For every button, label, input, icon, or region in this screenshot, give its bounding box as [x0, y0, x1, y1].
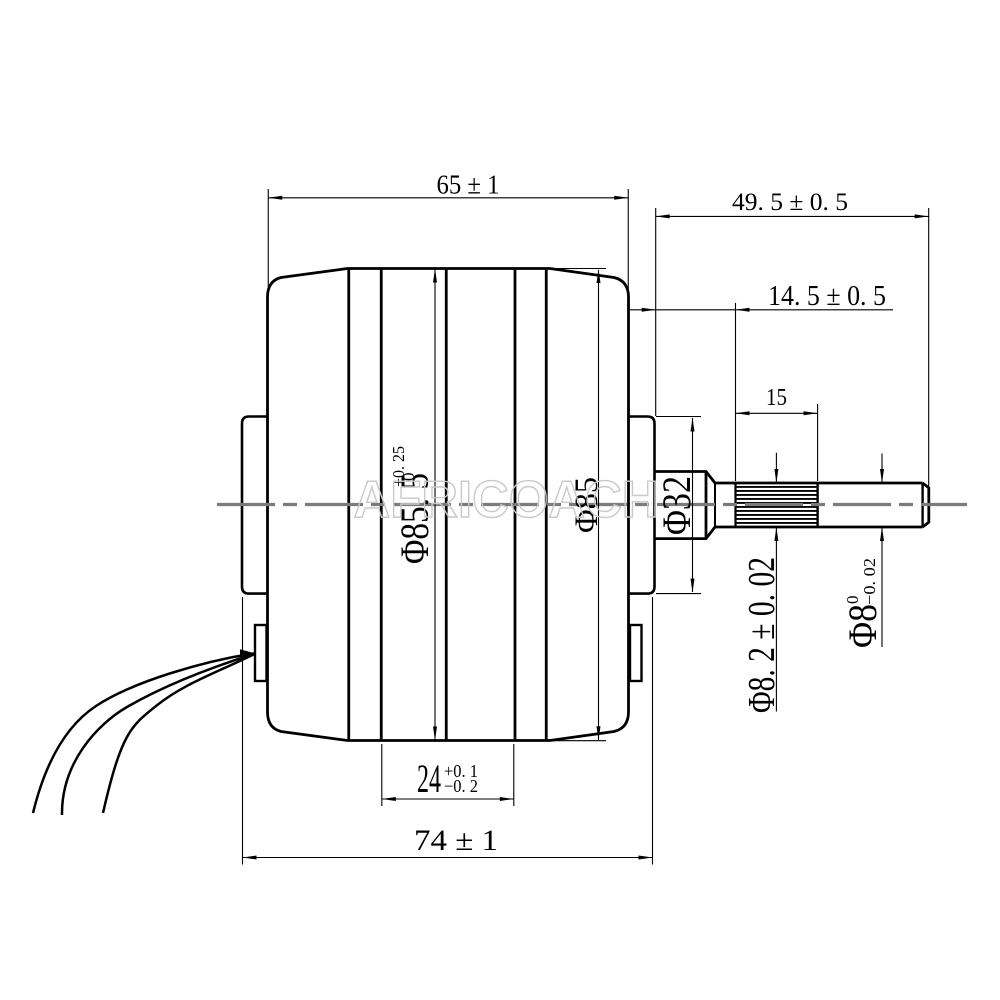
- svg-text:14. 5 ± 0. 5: 14. 5 ± 0. 5: [768, 280, 886, 312]
- svg-text:Φ32: Φ32: [654, 476, 699, 535]
- svg-text:74 ± 1: 74 ± 1: [414, 824, 498, 857]
- svg-text:Φ8: Φ8: [840, 604, 885, 648]
- svg-text:Φ8. 2 ± 0. 02: Φ8. 2 ± 0. 02: [741, 557, 783, 713]
- svg-text:49. 5 ± 0. 5: 49. 5 ± 0. 5: [732, 189, 848, 216]
- svg-text:AFRICOACH: AFRICOACH: [354, 471, 659, 529]
- svg-text:24: 24: [417, 756, 441, 801]
- svg-text:15: 15: [766, 384, 787, 411]
- svg-text:−0. 2: −0. 2: [444, 776, 478, 796]
- svg-text:−0. 02: −0. 02: [860, 558, 879, 605]
- svg-text:65 ± 1: 65 ± 1: [437, 169, 500, 199]
